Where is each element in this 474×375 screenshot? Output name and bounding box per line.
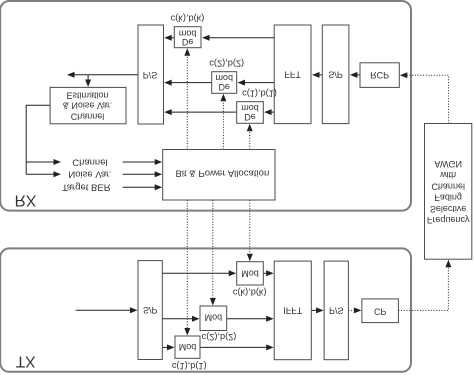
svg-text:Channel: Channel [71, 112, 105, 122]
svg-text:P/S: P/S [329, 305, 344, 315]
svg-text:FFT: FFT [284, 69, 301, 79]
svg-text:c(k),b(k): c(k),b(k) [171, 14, 205, 24]
svg-text:c(2),b(2): c(2),b(2) [202, 332, 237, 342]
svg-text:c(k),b(k): c(k),b(k) [233, 288, 267, 298]
svg-text:Estimation: Estimation [66, 91, 108, 101]
svg-text:De: De [218, 82, 230, 92]
svg-text:RCP: RCP [370, 70, 389, 80]
svg-text:Mod: Mod [241, 268, 259, 278]
svg-text:Mod: Mod [179, 342, 197, 352]
svg-text:Channel: Channel [431, 181, 465, 191]
svg-text:with: with [439, 170, 456, 180]
svg-text:mod: mod [179, 28, 197, 38]
svg-text:Mod: Mod [205, 313, 223, 323]
svg-text:Noise Var.: Noise Var. [68, 169, 111, 180]
svg-text:De: De [244, 112, 256, 122]
svg-text:& Noise Var.: & Noise Var. [63, 101, 112, 111]
svg-text:Bit & Power Allocation: Bit & Power Allocation [175, 168, 269, 179]
svg-text:TX: TX [16, 352, 36, 369]
svg-text:S/P: S/P [143, 305, 158, 315]
svg-text:De: De [182, 37, 194, 47]
svg-text:RX: RX [15, 191, 37, 208]
svg-text:Frequency: Frequency [427, 215, 470, 225]
svg-text:mod: mod [241, 103, 259, 113]
svg-text:Target BER: Target BER [62, 182, 111, 193]
svg-text:IFFT: IFFT [283, 305, 302, 315]
svg-text:c(1),b(1): c(1),b(1) [242, 88, 277, 98]
svg-text:AWGN: AWGN [434, 159, 462, 169]
svg-text:CP: CP [374, 307, 387, 317]
svg-text:c(1),b(1): c(1),b(1) [172, 361, 207, 371]
svg-text:P/S: P/S [143, 70, 158, 80]
svg-text:mod: mod [215, 73, 233, 83]
svg-text:c(2),b(2): c(2),b(2) [209, 58, 244, 68]
svg-text:Selective: Selective [430, 204, 467, 214]
svg-text:S/P: S/P [328, 69, 343, 79]
svg-text:Channel: Channel [72, 157, 107, 168]
svg-text:Fading: Fading [434, 193, 462, 203]
